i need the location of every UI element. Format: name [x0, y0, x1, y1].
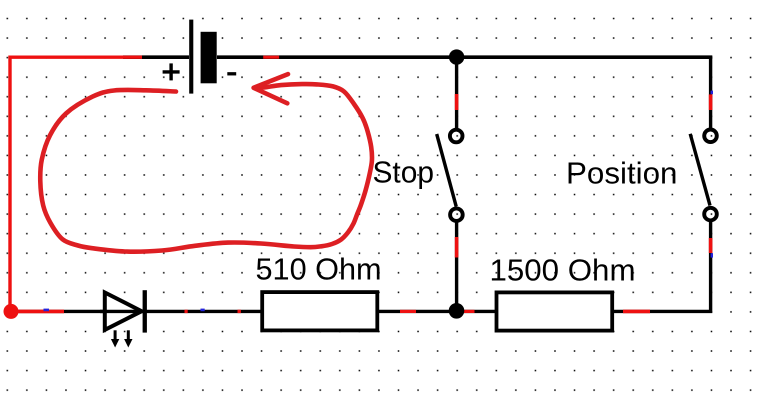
annotation red arrow head — [254, 74, 288, 103]
wire LED to 510 Ohm resistor — [100, 310, 261, 313]
wire Position branch vertical lower + bottom run to 1500 Ohm — [614, 220, 711, 312]
resistor 510 Ohm — [262, 292, 377, 330]
wire red segment Position branch lower — [709, 238, 713, 253]
wire right vertical (top corner down to Position switch) — [709, 56, 712, 130]
wire Stop branch vertical lower — [455, 221, 458, 312]
wire red segment right of battery — [263, 56, 279, 59]
wire red segment Stop branch upper — [455, 94, 459, 110]
svg-text:Stop: Stop — [373, 155, 435, 190]
switch Stop — [437, 130, 463, 221]
battery plus label — [163, 63, 180, 80]
label Position — [566, 156, 678, 191]
wire red segment left of bottom junction — [400, 310, 416, 313]
label Stop — [373, 155, 435, 190]
wire red segment Stop branch lower — [455, 237, 459, 258]
wire top-left red segment — [10, 57, 142, 313]
battery minus label — [227, 72, 236, 75]
wire Stop branch vertical upper — [455, 57, 458, 130]
wire red tick a — [185, 310, 188, 313]
svg-text:510 Ohm: 510 Ohm — [256, 252, 382, 287]
LED D1 — [105, 290, 147, 347]
wire top horizontal black (battery to right corner) — [123, 55, 712, 59]
label 510 Ohm — [256, 252, 382, 287]
wire bottom junction to 1500 Ohm — [457, 310, 495, 313]
svg-text:Position: Position — [566, 156, 678, 191]
battery B1 — [189, 20, 217, 94]
node junction top (Stop branch) — [449, 49, 464, 64]
wire blue tick b — [201, 309, 205, 312]
wire red segment left of Position corner — [623, 310, 650, 314]
switch Position — [690, 130, 717, 221]
node red junction bottom-left — [4, 304, 19, 319]
resistor 1500 Ohm — [497, 292, 613, 330]
wire blue tick on red segment — [44, 309, 50, 312]
wire red tick c — [238, 310, 241, 313]
label 1500 Ohm — [490, 253, 636, 288]
wire blue tick Position branch lower — [711, 253, 713, 257]
svg-text:1500 Ohm: 1500 Ohm — [490, 253, 636, 288]
wire bottom left (node to LED) — [10, 310, 104, 313]
wire red segment right of bottom junction — [464, 310, 475, 313]
wire red segment at red node — [10, 310, 64, 314]
wire red segment right vertical — [709, 94, 713, 110]
wire blue tick right vertical — [711, 91, 713, 95]
node junction bottom — [449, 303, 465, 319]
wire 510 Ohm to bottom junction — [379, 310, 462, 313]
annotation red current loop — [40, 84, 372, 252]
